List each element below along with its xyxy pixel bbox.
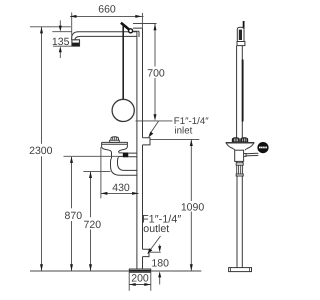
arrow 720 bottom — [89, 264, 92, 271]
eyewash base plate — [229, 268, 252, 272]
arrow 660 left — [70, 15, 77, 18]
arrow 700 bottom — [154, 114, 157, 121]
dim 200 extensions — [129, 273, 151, 291]
dim 1090 line — [190, 140, 192, 271]
dim 1090 top extension — [150, 138, 199, 140]
arrow 870 top — [70, 156, 73, 163]
dim 2300 line — [41, 27, 43, 271]
shower sprinkler nozzle — [72, 40, 80, 46]
dim 660 line — [70, 15, 144, 17]
dim 180 arrow tails — [159, 245, 161, 285]
ground line — [30, 270, 201, 272]
eyewash union band top — [236, 163, 243, 165]
actuator head bracket — [133, 28, 143, 37]
dim 135 bottom extension — [53, 45, 72, 47]
arrow 660 right — [135, 15, 142, 18]
eyewash top sleeve — [237, 27, 244, 41]
eyewash union band bottom — [236, 174, 243, 176]
arrow 2300 top — [40, 27, 43, 34]
arrow 1090 top — [190, 140, 193, 147]
eyewash pipe — [237, 46, 243, 268]
eyewash handle nub — [244, 154, 246, 157]
eyewash handle arm — [246, 153, 258, 156]
arrow 135 bottom (outside, pointing up) — [59, 46, 62, 52]
eyewash top tip — [243, 21, 245, 29]
valve outlet elbow — [111, 157, 138, 175]
dim 135 arrow tails — [59, 20, 61, 58]
svg-text:430: 430 — [112, 182, 130, 194]
arrow 430 left — [101, 192, 108, 195]
dim 700 top extension — [133, 23, 157, 25]
svg-text:660: 660 — [98, 4, 116, 16]
svg-text:2300: 2300 — [29, 145, 53, 157]
arrow 720 top — [89, 172, 92, 179]
svg-text:outlet: outlet — [143, 223, 169, 235]
inlet leader diagonal — [150, 121, 159, 135]
svg-text:inlet: inlet — [175, 126, 193, 137]
actuator pivot ring — [129, 29, 133, 33]
arrow 180 top (outside, pointing down) — [158, 246, 161, 252]
valve seat dark block — [123, 153, 129, 158]
dim 870 line — [71, 157, 73, 271]
valve top plate — [102, 142, 128, 144]
svg-text:870: 870 — [65, 210, 83, 222]
svg-text:135: 135 — [52, 36, 70, 48]
eyewash sleeve dark interior — [239, 30, 242, 40]
arrow 135 top (outside, pointing down) — [59, 26, 62, 32]
arrow outlet leader — [147, 248, 152, 254]
dim 720 top extension — [83, 170, 110, 172]
pull rod — [122, 25, 124, 100]
pull ball — [112, 99, 134, 121]
dim 135 top extension (arm top extended) — [52, 31, 71, 33]
outlet leader diagonal — [149, 236, 161, 252]
eyewash nozzle right — [241, 138, 248, 142]
shower base plate — [129, 269, 150, 272]
svg-text:720: 720 — [84, 219, 102, 231]
push ball white stripe — [259, 147, 267, 149]
valve body taper left — [102, 144, 112, 158]
outlet fitting on riser — [143, 249, 150, 256]
shower arm elbow — [72, 32, 81, 41]
arrow 200 left — [129, 283, 136, 286]
valve bonnet cap — [111, 137, 119, 141]
dim 2300 top extension — [30, 26, 71, 28]
dim 700 line — [154, 24, 156, 115]
arrow 180 bottom (outside, pointing up) — [158, 271, 161, 277]
dim 430 left extension — [100, 147, 102, 198]
arrow 1090 bottom — [190, 264, 193, 271]
dim 660 right extension — [141, 13, 143, 28]
inlet fitting on riser — [143, 138, 151, 145]
svg-text:700: 700 — [147, 68, 165, 80]
dim 660 left extension — [71, 13, 73, 40]
dim 720 line — [90, 172, 92, 271]
valve body taper right — [119, 144, 128, 152]
eyewash nozzle left — [232, 138, 239, 142]
eyewash top coupling — [237, 42, 245, 46]
eyewash bowl — [226, 142, 255, 144]
eyewash base plate ticks — [231, 268, 250, 272]
arrow inlet leader — [148, 132, 153, 138]
arrow 200 right — [144, 283, 151, 286]
svg-text:180: 180 — [151, 257, 169, 269]
dim 200 line — [129, 284, 151, 286]
valve bonnet hatching — [113, 137, 117, 140]
arrow 2300 bottom — [40, 264, 43, 271]
shower arm horizontal pipe — [79, 32, 138, 37]
eyewash push ball — [258, 142, 268, 152]
shower riser pipe right wall — [142, 28, 144, 269]
arrow 430 right — [132, 192, 139, 195]
dim 700 bottom extension / inlet leader base — [136, 120, 173, 122]
eyewash bowl stem block — [235, 150, 244, 161]
valve to riser connection — [119, 153, 137, 157]
arrow 870 bottom — [70, 264, 73, 271]
shower base plate dark band — [129, 270, 150, 272]
sprinkler nozzle dark base — [72, 43, 79, 47]
eyewash union body — [237, 165, 243, 174]
dim 430 line — [101, 192, 139, 194]
dim 870 top extension — [64, 155, 123, 157]
svg-text:1090: 1090 — [181, 201, 205, 213]
shower riser pipe left wall — [136, 32, 138, 269]
eyewash actuator rod dark — [242, 60, 244, 122]
actuator head dark bar — [121, 23, 129, 30]
arrow 700 top — [154, 24, 157, 31]
dim 180 top extension — [150, 251, 161, 253]
svg-text:200: 200 — [131, 272, 149, 284]
